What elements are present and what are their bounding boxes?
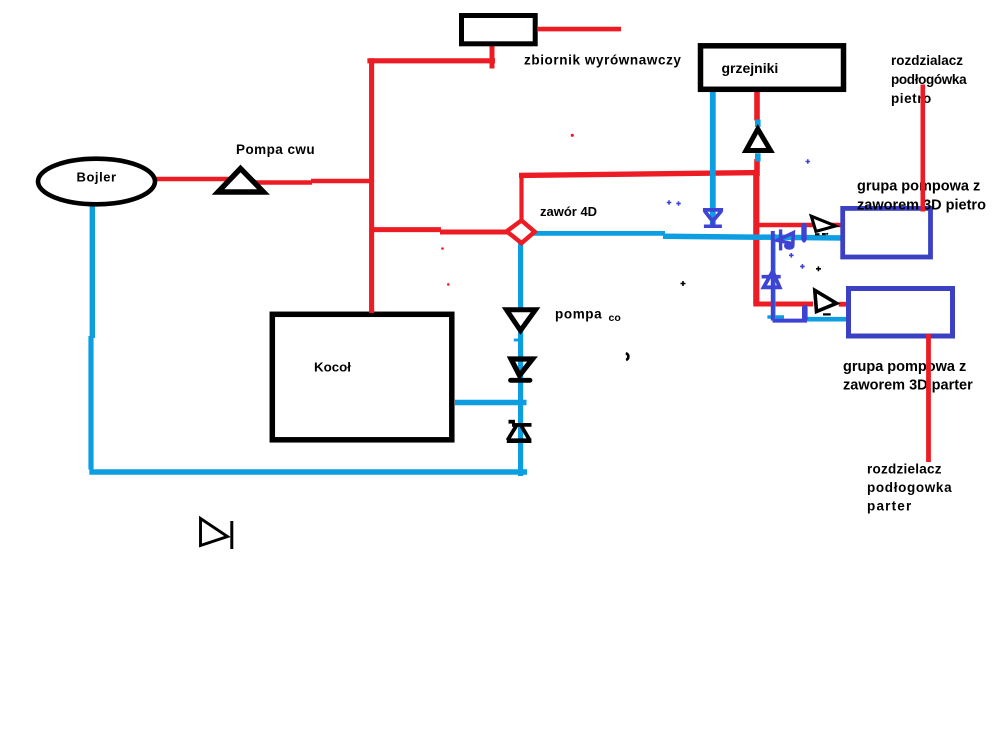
svg-text:parter: parter [867,499,912,514]
valve V2 triangle [511,359,533,376]
svg-text:zbiornik wyrównawczy: zbiornik wyrównawczy [524,53,682,68]
valve pompa co open triangle [507,310,536,331]
wire red dash into parter box [839,302,847,307]
stray red dot lower [447,283,450,286]
valve V3 bottom bar [507,438,532,443]
wire cyan dash below grzejniki pump [755,153,761,161]
pump parter tick below [823,313,831,315]
valve funnel top bar [703,208,723,212]
valve dark blue link vertical [771,231,775,321]
wire red stub below zbiornik [490,44,495,69]
valve up-triangle crossbar [762,275,781,279]
stray blue plus speck B [676,201,681,206]
gate bar parter [802,305,808,322]
wire red feed to pietro group [756,223,842,228]
wire cyan dash above grzejniki pump [755,120,761,128]
wire cyan riser diamond to bottom [518,243,523,476]
stray red dot upper [571,134,574,137]
stray black arc [626,353,629,360]
valve left-triangle body [778,233,794,244]
check valve bottom left triangle [201,519,228,546]
boiler Bojler ellipse [38,159,155,205]
wire cyan tail at parter corner [767,315,784,318]
wire red pump to junction segment C [311,179,374,184]
wire red rozdzialacz pietro drop [920,85,925,212]
stray black plus speck A [681,281,686,286]
svg-text:zaworem 3D parter: zaworem 3D parter [843,378,973,394]
wire cyan Bojler drop lower [88,336,93,470]
valve V2 bottom bar [511,378,531,383]
wire red grzejniki drop lower [754,159,760,176]
svg-text:podłogowka: podłogowka [867,480,952,495]
stray blue round dot [802,239,806,243]
wire cyan Kocol outlet [455,400,527,406]
wire cyan tick left of riser [514,339,520,342]
valve left-triangle bar [779,229,782,250]
wire cyan horizontal into parter group [805,317,847,322]
valve funnel stem [711,218,715,226]
stray blue plus speck C [806,159,811,164]
wire red horizontal diamond to grzejniki drop [519,173,760,176]
valve dark blue link horizontal [773,319,808,323]
valve V3 right leg [522,426,530,440]
pump group box pietro [843,208,931,257]
pump group box parter [849,289,953,337]
valve funnel bottom bar [704,225,722,229]
svg-text:pietro: pietro [891,91,932,106]
pump Pompa cwu triangle [218,169,264,193]
svg-text:Kocoł: Kocoł [314,360,351,375]
wire red top from zbiornik right [538,27,621,32]
valve funnel left diagonal [705,211,712,220]
wire red feed to parter group [753,302,813,307]
wire red right trunk vertical [753,171,759,304]
stray blue plus speck A [667,200,672,205]
stray red dot near diamond [441,247,444,250]
furnace Kocol box [272,314,452,440]
gate bar pietro [801,223,806,242]
pump pietro tick dot [826,233,828,235]
stray blue plus speck D [789,253,794,258]
valve 4D diamond [507,220,535,243]
expansion tank zbiornik wyrownawczy box [462,16,536,44]
svg-text:grzejniki: grzejniki [722,60,779,76]
valve V3 small top-left bar [509,420,516,424]
valve V3 left leg [508,426,517,441]
svg-text:Bojler: Bojler [77,169,117,184]
pump pietro triangle [811,216,835,231]
wire red main vertical to Kocol [369,58,374,312]
wire red Bojler to pump segment A [151,177,230,182]
wire red pump to junction segment B [255,180,312,185]
valve up-triangle on riser [764,271,780,287]
valve funnel right diagonal [714,211,721,220]
svg-text:rozdzielacz: rozdzielacz [867,462,942,477]
svg-text:zawór 4D: zawór 4D [540,204,597,219]
svg-text:grupa pompowa z: grupa pompowa z [857,179,980,195]
valve V3 top bar [512,423,532,427]
wire cyan bottom return horizontal [89,469,527,475]
wire cyan diamond to right segment B [663,236,845,238]
wire red rozdzielacz parter drop [926,334,931,462]
pump parter triangle [815,290,837,311]
wire cyan riser to parter group [771,234,776,318]
radiators grzejniki box [701,46,844,90]
svg-text:podłogówka: podłogówka [891,72,967,87]
wire red horizontal to zbiornik [367,58,495,63]
wire red horizontal left of diamond segment A [374,227,441,232]
check valve bottom left bar [230,521,233,549]
svg-text:co: co [609,312,621,324]
pump grzejniki triangle [746,129,771,151]
stray blue plus speck E [800,264,805,269]
valve left-triangle blob [784,242,795,250]
svg-text:rozdzialacz: rozdzialacz [891,53,963,68]
wire red grzejniki drop upper [754,90,760,121]
wire cyan diamond to right segment A [533,231,665,236]
pump pietro top tail stroke [815,233,826,235]
wire cyan grzejniki return drop [710,92,716,225]
wire red vertical into valve 4D diamond [519,175,523,222]
svg-text:pompa: pompa [555,307,602,322]
wire red notch over Kocol border [369,309,374,313]
wire red horizontal left of diamond segment B [440,230,509,235]
stray black plus speck B [816,266,821,271]
svg-text:grupa pompowa z: grupa pompowa z [843,359,966,375]
svg-text:Pompa cwu: Pompa cwu [236,142,315,157]
wire cyan Bojler return drop [90,203,95,338]
